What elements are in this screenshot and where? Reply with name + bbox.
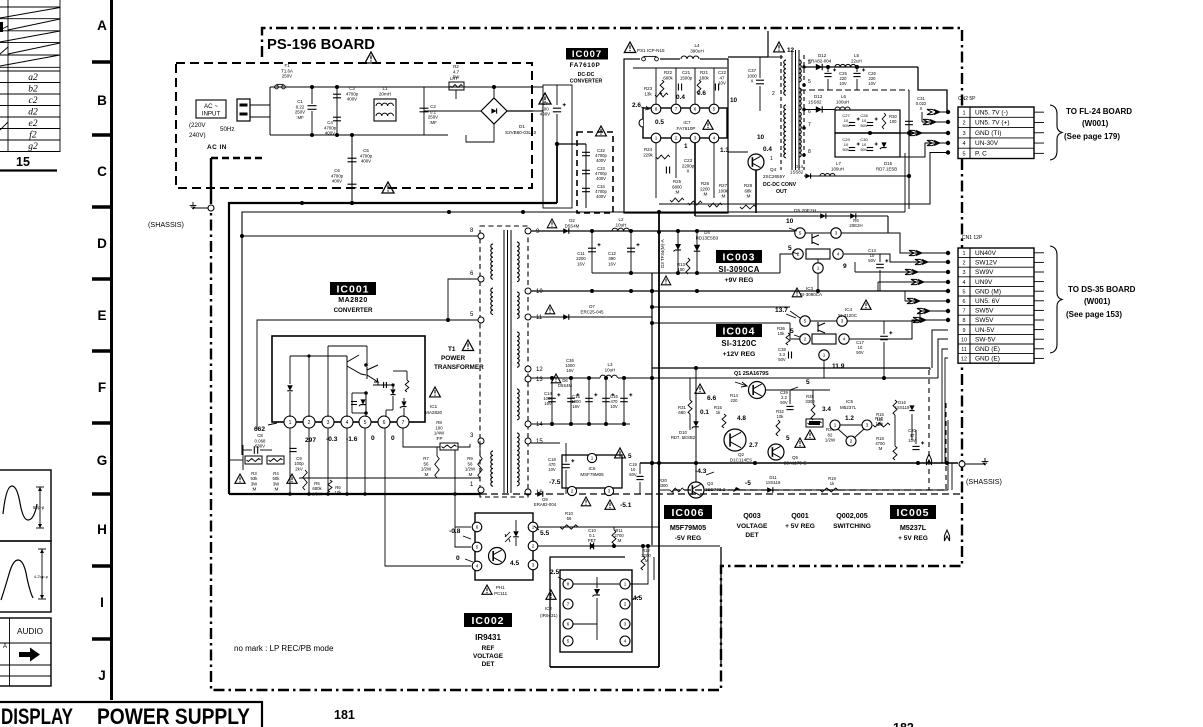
svg-text:L4: L4 bbox=[694, 43, 700, 48]
svg-text:6: 6 bbox=[567, 622, 570, 627]
svg-text:IC7: IC7 bbox=[683, 120, 691, 125]
svg-text:IC006: IC006 bbox=[671, 507, 704, 519]
svg-text:5: 5 bbox=[963, 289, 966, 295]
svg-text:D7: D7 bbox=[589, 304, 595, 309]
svg-text:X: X bbox=[751, 79, 754, 84]
svg-text:182: 182 bbox=[893, 721, 914, 727]
svg-text:3300: 3300 bbox=[658, 483, 668, 488]
svg-text:IR9431: IR9431 bbox=[475, 633, 501, 642]
svg-text:0.4: 0.4 bbox=[676, 94, 685, 101]
svg-text:3: 3 bbox=[694, 136, 697, 141]
svg-text:T1: T1 bbox=[448, 346, 456, 353]
svg-text:F1: F1 bbox=[284, 63, 290, 68]
svg-text:16V: 16V bbox=[577, 261, 585, 266]
svg-text:100: 100 bbox=[541, 106, 549, 111]
svg-text:2: 2 bbox=[624, 602, 627, 607]
svg-text:1: 1 bbox=[817, 266, 820, 271]
svg-text:400V: 400V bbox=[540, 112, 550, 117]
svg-text:IC004: IC004 bbox=[722, 325, 755, 337]
svg-text:IC6: IC6 bbox=[588, 466, 596, 471]
svg-text:10k: 10k bbox=[778, 331, 786, 336]
svg-text:+9V REG: +9V REG bbox=[725, 277, 754, 284]
svg-text:4: 4 bbox=[843, 337, 846, 342]
svg-text:Q4: Q4 bbox=[770, 167, 777, 172]
svg-text:1: 1 bbox=[684, 143, 688, 150]
svg-text:10: 10 bbox=[536, 289, 543, 295]
svg-text:2SA1175-E: 2SA1175-E bbox=[784, 460, 807, 465]
svg-text:D5S4M: D5S4M bbox=[565, 223, 580, 228]
svg-text:0.4: 0.4 bbox=[763, 146, 772, 153]
svg-text:2: 2 bbox=[571, 489, 574, 494]
svg-text:L7: L7 bbox=[836, 161, 841, 166]
svg-text:no mark : LP REC/PB mode: no mark : LP REC/PB mode bbox=[234, 644, 334, 653]
svg-text:+12V REG: +12V REG bbox=[723, 351, 756, 358]
svg-text:1: 1 bbox=[624, 582, 627, 587]
svg-text:400V: 400V bbox=[361, 159, 371, 164]
svg-text:10k: 10k bbox=[777, 414, 785, 419]
svg-text:0.5: 0.5 bbox=[655, 119, 664, 126]
svg-text:ERA82-004: ERA82-004 bbox=[534, 502, 557, 507]
svg-text:C5: C5 bbox=[363, 148, 369, 153]
svg-text:R26: R26 bbox=[701, 181, 710, 186]
svg-text:IC3: IC3 bbox=[806, 286, 814, 291]
svg-text:9: 9 bbox=[843, 263, 847, 270]
svg-text:4.2Vp-p: 4.2Vp-p bbox=[34, 574, 49, 579]
svg-text:CONVERTER: CONVERTER bbox=[334, 307, 373, 314]
svg-text:e2: e2 bbox=[29, 119, 38, 129]
svg-text:2: 2 bbox=[962, 121, 965, 127]
svg-text:13k: 13k bbox=[644, 91, 652, 96]
svg-text:4: 4 bbox=[476, 564, 479, 569]
svg-text:AC IN: AC IN bbox=[207, 144, 227, 151]
svg-text:C: C bbox=[97, 164, 107, 179]
svg-text:1/2W: 1/2W bbox=[312, 491, 323, 496]
svg-text:TO FL-24 BOARD: TO FL-24 BOARD bbox=[1066, 107, 1132, 116]
svg-text:L5: L5 bbox=[854, 53, 860, 58]
svg-text:5: 5 bbox=[790, 328, 794, 335]
svg-text:9: 9 bbox=[963, 328, 966, 334]
svg-text:RD7.1ESB: RD7.1ESB bbox=[876, 167, 897, 172]
svg-text::M: :M bbox=[878, 446, 883, 451]
svg-text:D1: D1 bbox=[519, 124, 525, 129]
svg-text:0: 0 bbox=[371, 435, 375, 442]
svg-text:PC111: PC111 bbox=[494, 591, 508, 596]
svg-text:12: 12 bbox=[787, 47, 795, 54]
svg-text:1: 1 bbox=[532, 525, 535, 530]
svg-text:PET: PET bbox=[588, 538, 597, 543]
svg-text:C8: C8 bbox=[257, 433, 263, 438]
svg-text:3: 3 bbox=[963, 270, 966, 276]
svg-text:B: B bbox=[97, 93, 107, 108]
svg-text:R7: R7 bbox=[423, 456, 429, 461]
svg-text:CN1 12P: CN1 12P bbox=[962, 235, 983, 241]
svg-text:50V: 50V bbox=[842, 147, 849, 152]
svg-text:680: 680 bbox=[678, 410, 686, 415]
svg-text:1: 1 bbox=[591, 456, 594, 461]
svg-text:C2: C2 bbox=[430, 104, 436, 109]
svg-text:(SHASSIS): (SHASSIS) bbox=[148, 220, 184, 229]
svg-text:11: 11 bbox=[536, 315, 543, 321]
svg-text:8: 8 bbox=[808, 149, 811, 155]
svg-text:ERC25-045: ERC25-045 bbox=[581, 309, 604, 314]
svg-text:5: 5 bbox=[804, 319, 807, 324]
svg-text:12: 12 bbox=[536, 367, 543, 373]
svg-text:4700p: 4700p bbox=[331, 173, 344, 178]
svg-text:R22: R22 bbox=[664, 70, 673, 75]
svg-text:L6: L6 bbox=[841, 94, 847, 99]
svg-text:2SC2655Y: 2SC2655Y bbox=[763, 174, 785, 179]
svg-text:20E2H: 20E2H bbox=[849, 223, 862, 228]
svg-text:CN2 5P: CN2 5P bbox=[958, 96, 976, 102]
svg-text:DISPLAY: DISPLAY bbox=[1, 704, 73, 727]
svg-text::M: :M bbox=[703, 192, 708, 197]
svg-text:+ 5V REG: + 5V REG bbox=[898, 535, 928, 542]
svg-text:240V): 240V) bbox=[189, 132, 206, 139]
svg-text:D2: D2 bbox=[569, 218, 575, 223]
svg-text:3: 3 bbox=[841, 319, 844, 324]
svg-text:UN9V: UN9V bbox=[975, 279, 993, 286]
svg-text:181: 181 bbox=[334, 708, 355, 722]
svg-text:(See page 153): (See page 153) bbox=[1066, 310, 1122, 319]
svg-text:4: 4 bbox=[346, 420, 349, 426]
svg-text:14: 14 bbox=[536, 422, 543, 428]
svg-text:M5F79M05: M5F79M05 bbox=[670, 523, 706, 532]
svg-text:250V: 250V bbox=[282, 74, 292, 79]
svg-text:5: 5 bbox=[476, 545, 479, 550]
svg-text:C21: C21 bbox=[682, 70, 691, 75]
svg-text:H: H bbox=[97, 522, 107, 537]
svg-text:250V: 250V bbox=[428, 115, 438, 120]
svg-text:50V: 50V bbox=[860, 123, 867, 128]
svg-text:1.3: 1.3 bbox=[720, 147, 729, 154]
svg-text:180k: 180k bbox=[699, 75, 709, 80]
svg-text:250V: 250V bbox=[295, 110, 305, 115]
svg-text::M: :M bbox=[746, 194, 751, 199]
svg-text:Q003: Q003 bbox=[743, 511, 761, 520]
svg-text:400V: 400V bbox=[596, 158, 606, 163]
svg-text:50Hz: 50Hz bbox=[220, 126, 234, 133]
svg-text:0.1: 0.1 bbox=[430, 109, 437, 114]
svg-text:0.22: 0.22 bbox=[296, 104, 305, 109]
svg-text:SI-3120C: SI-3120C bbox=[838, 313, 858, 318]
svg-text:50V: 50V bbox=[842, 123, 849, 128]
svg-text:D5 20E2H: D5 20E2H bbox=[794, 208, 817, 214]
svg-text:5: 5 bbox=[364, 420, 367, 426]
svg-text:10: 10 bbox=[961, 337, 967, 343]
svg-text:d2: d2 bbox=[28, 108, 38, 118]
svg-text:Q3: Q3 bbox=[707, 481, 714, 486]
svg-text:2: 2 bbox=[850, 439, 853, 444]
svg-text:4: 4 bbox=[962, 141, 965, 147]
svg-text:D14: D14 bbox=[795, 164, 804, 169]
svg-text:8: 8 bbox=[963, 318, 966, 324]
svg-text:SW9V: SW9V bbox=[975, 269, 994, 276]
svg-text:-5: -5 bbox=[745, 480, 751, 487]
svg-text:10V: 10V bbox=[548, 467, 556, 472]
svg-text:RD7. 5ESB2: RD7. 5ESB2 bbox=[671, 435, 696, 440]
svg-text:1SS82: 1SS82 bbox=[808, 100, 822, 105]
svg-text:1500p: 1500p bbox=[680, 75, 693, 80]
svg-text:4.7: 4.7 bbox=[453, 69, 460, 74]
svg-text:662: 662 bbox=[254, 426, 265, 433]
svg-text::MF: :MF bbox=[429, 120, 437, 125]
svg-text:100uH: 100uH bbox=[836, 100, 849, 105]
svg-text:f2: f2 bbox=[29, 130, 37, 141]
svg-text:R28: R28 bbox=[744, 183, 753, 188]
svg-text:12: 12 bbox=[961, 357, 967, 363]
svg-text:15: 15 bbox=[16, 155, 30, 169]
svg-text:2: 2 bbox=[804, 337, 807, 342]
svg-text:IC005: IC005 bbox=[896, 507, 929, 519]
svg-text:2: 2 bbox=[963, 261, 966, 267]
svg-text:5: 5 bbox=[713, 107, 716, 112]
svg-text:8: 8 bbox=[655, 107, 658, 112]
svg-text:R23: R23 bbox=[644, 86, 653, 91]
svg-text:7: 7 bbox=[675, 107, 678, 112]
svg-text:GND (TI): GND (TI) bbox=[975, 130, 1001, 137]
svg-text::M: :M bbox=[424, 472, 429, 477]
svg-text:3: 3 bbox=[532, 563, 535, 568]
svg-text:7: 7 bbox=[402, 420, 405, 426]
svg-text:6: 6 bbox=[476, 525, 479, 530]
svg-text:D13: D13 bbox=[814, 94, 823, 99]
svg-text:47: 47 bbox=[720, 75, 725, 80]
svg-text:22uH: 22uH bbox=[851, 59, 862, 64]
svg-text:3: 3 bbox=[327, 420, 330, 426]
svg-text:MSF79M05: MSF79M05 bbox=[580, 472, 604, 477]
svg-text:1: 1 bbox=[834, 423, 837, 428]
svg-text:50V: 50V bbox=[629, 472, 637, 477]
svg-text:E: E bbox=[97, 308, 106, 323]
svg-text:10V: 10V bbox=[868, 81, 876, 86]
svg-text:-7.5: -7.5 bbox=[549, 479, 561, 486]
svg-text:1/2W: 1/2W bbox=[465, 467, 476, 472]
svg-text:PS1 ICP-N15: PS1 ICP-N15 bbox=[637, 48, 665, 53]
svg-text:GND (M): GND (M) bbox=[975, 288, 1001, 295]
svg-text:RD13ESB3: RD13ESB3 bbox=[696, 235, 719, 240]
svg-text:F: F bbox=[98, 380, 106, 395]
svg-text:4700p: 4700p bbox=[346, 91, 359, 96]
svg-text:L1: L1 bbox=[382, 86, 388, 91]
svg-text:6: 6 bbox=[963, 299, 966, 305]
svg-text:UN-30V: UN-30V bbox=[975, 140, 999, 147]
svg-text:2: 2 bbox=[772, 91, 775, 97]
svg-text:5Vp-p: 5Vp-p bbox=[33, 505, 45, 510]
svg-text:REF: REF bbox=[482, 645, 495, 652]
svg-text:0: 0 bbox=[456, 555, 460, 562]
svg-text:DET: DET bbox=[482, 661, 495, 668]
svg-text:b2: b2 bbox=[28, 85, 38, 95]
svg-text:R27: R27 bbox=[719, 183, 728, 188]
svg-text:GND (E): GND (E) bbox=[975, 346, 1000, 353]
svg-text:0.068: 0.068 bbox=[255, 438, 267, 443]
svg-text:400V: 400V bbox=[596, 194, 606, 199]
svg-text:5: 5 bbox=[799, 231, 802, 236]
svg-text:FA7610P: FA7610P bbox=[677, 126, 696, 131]
svg-text:D12: D12 bbox=[818, 53, 827, 58]
svg-text:-0.8: -0.8 bbox=[449, 528, 461, 535]
svg-text:4700p: 4700p bbox=[324, 125, 337, 130]
svg-text:50V: 50V bbox=[868, 258, 876, 263]
svg-text:CONVERTER: CONVERTER bbox=[570, 79, 603, 85]
svg-text:c2: c2 bbox=[29, 96, 38, 106]
svg-text:10V: 10V bbox=[610, 404, 618, 409]
svg-text:M5237L: M5237L bbox=[900, 523, 927, 532]
svg-text:1/4W: 1/4W bbox=[434, 431, 445, 436]
svg-text:UN5. 6V: UN5. 6V bbox=[975, 298, 1000, 305]
svg-text:L3: L3 bbox=[607, 362, 613, 367]
svg-text:10uH: 10uH bbox=[605, 367, 616, 372]
svg-text:C3: C3 bbox=[349, 86, 355, 91]
svg-text:R21: R21 bbox=[700, 70, 709, 75]
svg-text:D4: D4 bbox=[704, 230, 710, 235]
svg-text:INPUT: INPUT bbox=[202, 111, 221, 118]
svg-text:C4: C4 bbox=[327, 120, 333, 125]
svg-text:4: 4 bbox=[837, 252, 840, 257]
svg-text:OUT: OUT bbox=[776, 189, 788, 195]
svg-text:TRANSFORMER: TRANSFORMER bbox=[434, 364, 484, 371]
svg-text:SW5V: SW5V bbox=[975, 317, 994, 324]
svg-text:X: X bbox=[920, 106, 923, 111]
svg-text:SW-5V: SW-5V bbox=[975, 336, 996, 343]
svg-text:3: 3 bbox=[835, 231, 838, 236]
svg-text:400V: 400V bbox=[325, 131, 335, 136]
svg-text:13.7: 13.7 bbox=[775, 307, 788, 314]
svg-text:D: D bbox=[97, 236, 107, 251]
svg-text:1: 1 bbox=[823, 353, 826, 358]
svg-text:4: 4 bbox=[624, 639, 627, 644]
svg-text:1/2W: 1/2W bbox=[421, 467, 432, 472]
svg-text::M: :M bbox=[274, 487, 279, 492]
svg-text:5: 5 bbox=[806, 379, 810, 386]
svg-text:4: 4 bbox=[963, 280, 966, 286]
svg-text:390uH: 390uH bbox=[690, 49, 704, 54]
svg-text:6: 6 bbox=[383, 420, 386, 426]
svg-text:UN-5V: UN-5V bbox=[975, 327, 995, 334]
svg-text:2.6: 2.6 bbox=[632, 102, 641, 109]
svg-text:10: 10 bbox=[730, 97, 738, 104]
svg-text:TO DS-35 BOARD: TO DS-35 BOARD bbox=[1068, 285, 1136, 294]
svg-text:SW5V: SW5V bbox=[975, 308, 994, 315]
svg-text:UN5. 7V (+): UN5. 7V (+) bbox=[975, 120, 1010, 127]
svg-text:2: 2 bbox=[308, 420, 311, 426]
svg-text:5: 5 bbox=[786, 435, 790, 442]
svg-text:S2VB60-03L10: S2VB60-03L10 bbox=[505, 130, 537, 135]
svg-text:6800: 6800 bbox=[672, 184, 682, 189]
svg-text:2: 2 bbox=[532, 544, 535, 549]
svg-text:0: 0 bbox=[391, 435, 395, 442]
svg-text:1: 1 bbox=[962, 110, 965, 116]
svg-text:IC003: IC003 bbox=[722, 251, 755, 263]
svg-text:6.6: 6.6 bbox=[707, 395, 716, 402]
svg-text:UN40V: UN40V bbox=[975, 250, 997, 257]
svg-text:C37: C37 bbox=[748, 68, 757, 73]
svg-text:7: 7 bbox=[567, 602, 570, 607]
svg-text:10: 10 bbox=[757, 134, 765, 141]
svg-text:PH1: PH1 bbox=[496, 585, 505, 590]
svg-text:M5237L: M5237L bbox=[840, 405, 857, 410]
svg-text:400V: 400V bbox=[332, 179, 342, 184]
svg-text:-1.6: -1.6 bbox=[346, 436, 358, 443]
svg-text:100k: 100k bbox=[718, 188, 728, 193]
svg-text:2.5: 2.5 bbox=[550, 569, 559, 576]
svg-text:680k: 680k bbox=[663, 75, 673, 80]
svg-text:56: 56 bbox=[468, 461, 473, 466]
svg-text:400V: 400V bbox=[596, 176, 606, 181]
svg-text:VOLTAGE: VOLTAGE bbox=[737, 523, 768, 530]
svg-text:IC4: IC4 bbox=[845, 307, 853, 312]
svg-text:+ 5V REG: + 5V REG bbox=[785, 523, 815, 530]
svg-text:IC002: IC002 bbox=[471, 615, 504, 627]
svg-text:2200: 2200 bbox=[700, 186, 710, 191]
svg-text:(See page 179): (See page 179) bbox=[1064, 132, 1120, 141]
svg-text:10V: 10V bbox=[718, 81, 726, 86]
svg-text:GND (E): GND (E) bbox=[975, 356, 1000, 363]
svg-text:C6: C6 bbox=[334, 168, 340, 173]
svg-text:-5V REG: -5V REG bbox=[675, 535, 701, 542]
svg-text:11: 11 bbox=[961, 347, 967, 353]
svg-text:1SS82: 1SS82 bbox=[790, 170, 804, 175]
svg-text:L2: L2 bbox=[618, 217, 624, 222]
svg-text:3.4: 3.4 bbox=[822, 406, 831, 413]
svg-text::FP: :FP bbox=[436, 436, 443, 441]
svg-text:5: 5 bbox=[808, 79, 811, 85]
svg-text:R2: R2 bbox=[453, 64, 459, 69]
svg-text:10k: 10k bbox=[335, 490, 343, 495]
svg-text:(220V: (220V bbox=[189, 122, 206, 129]
svg-text:IC2: IC2 bbox=[545, 606, 553, 611]
svg-text:100: 100 bbox=[890, 119, 898, 124]
svg-text:DET: DET bbox=[745, 532, 758, 539]
svg-text:a2: a2 bbox=[28, 73, 38, 83]
svg-text:POWER: POWER bbox=[441, 355, 466, 362]
svg-text:SW12V: SW12V bbox=[975, 260, 998, 267]
svg-text:8: 8 bbox=[567, 582, 570, 587]
svg-text:SWITCHING: SWITCHING bbox=[833, 523, 871, 530]
svg-text:FA7610P: FA7610P bbox=[570, 62, 601, 69]
svg-text:Q2: Q2 bbox=[738, 452, 745, 457]
svg-text:3: 3 bbox=[608, 489, 611, 494]
svg-text:220: 220 bbox=[731, 398, 739, 403]
svg-text:68k: 68k bbox=[744, 188, 752, 193]
svg-text:400V: 400V bbox=[347, 97, 357, 102]
svg-text:DC-DC: DC-DC bbox=[578, 72, 595, 78]
svg-text::M: :M bbox=[252, 487, 257, 492]
svg-text:D3 TF34(M)-A: D3 TF34(M)-A bbox=[660, 239, 665, 268]
svg-text:1: 1 bbox=[770, 156, 773, 162]
svg-text:D15: D15 bbox=[884, 161, 893, 166]
svg-text:POWER SUPPLY: POWER SUPPLY bbox=[97, 704, 250, 727]
svg-text:630V: 630V bbox=[255, 444, 265, 449]
svg-text:16V: 16V bbox=[566, 368, 574, 373]
svg-text:ERA82-004: ERA82-004 bbox=[808, 59, 832, 64]
svg-text:-5.1: -5.1 bbox=[620, 502, 632, 509]
svg-text:1/2W: 1/2W bbox=[825, 438, 836, 443]
svg-text:1000: 1000 bbox=[747, 73, 757, 78]
svg-text:X: X bbox=[687, 169, 690, 174]
svg-text:PS-196 BOARD: PS-196 BOARD bbox=[267, 36, 375, 53]
svg-text:5: 5 bbox=[567, 639, 570, 644]
svg-text:1: 1 bbox=[289, 420, 292, 426]
svg-text:C22: C22 bbox=[718, 70, 727, 75]
svg-text:DC-DC CONV: DC-DC CONV bbox=[763, 182, 797, 188]
svg-text:SI-3090CA: SI-3090CA bbox=[718, 265, 759, 274]
svg-text:82: 82 bbox=[828, 432, 833, 437]
svg-text:G: G bbox=[97, 453, 108, 468]
svg-text:5: 5 bbox=[788, 245, 792, 252]
svg-text:2kV: 2kV bbox=[295, 466, 303, 471]
svg-text:11.9: 11.9 bbox=[832, 363, 845, 370]
